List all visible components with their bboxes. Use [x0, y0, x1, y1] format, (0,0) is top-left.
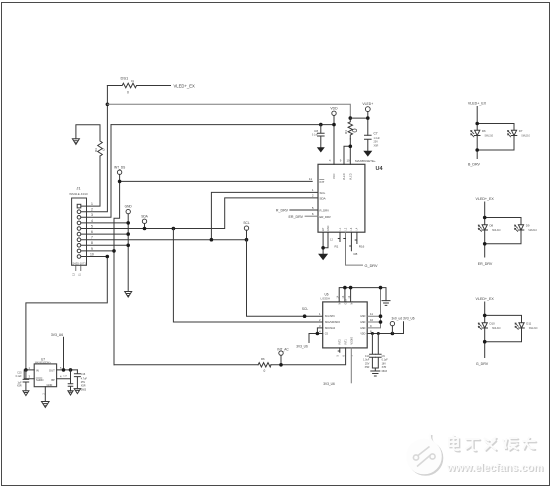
svg-text:GND: GND [47, 383, 53, 387]
svg-text:C15: C15 [17, 373, 22, 375]
wire INT_AC run to U6 INT1 [114, 348, 346, 365]
svg-text:G_DRV: G_DRV [365, 264, 378, 268]
svg-text:0603: 0603 [81, 388, 87, 391]
svg-text:7: 7 [91, 236, 93, 240]
svg-text:R_DRV: R_DRV [320, 209, 330, 213]
svg-text:3: 3 [91, 213, 93, 217]
svg-text:D6: D6 [482, 129, 486, 133]
svg-text:3v0_ud: 3v0_ud [392, 317, 403, 321]
watermark logo elecfans [408, 434, 443, 475]
svg-text:5: 5 [312, 206, 314, 210]
test point INT_AC [279, 351, 283, 355]
svg-text:INT1: INT1 [345, 339, 348, 345]
wire SCL: J1 pin7 to U4 pin1 [81, 192, 318, 239]
wire U6 right GND pins chain [367, 288, 380, 328]
svg-text:OUT: OUT [49, 368, 55, 372]
SECTION2 [16, 286, 415, 408]
svg-text:IN: IN [36, 368, 39, 372]
ground (C16) [74, 389, 80, 394]
svg-text:C8: C8 [314, 129, 318, 133]
svg-text:5: 5 [337, 355, 340, 357]
svg-text:25V: 25V [81, 381, 86, 384]
resistor R5 (0 ohm) [258, 363, 271, 367]
J1 pin numbers [90, 202, 94, 256]
svg-text:VDD: VDD [330, 107, 338, 111]
svg-text:1: 1 [319, 312, 321, 316]
svg-text:16V: 16V [382, 362, 387, 365]
svg-text:1uF: 1uF [18, 382, 23, 384]
svg-text:VCC: VCC [332, 173, 336, 179]
wire SDA: J1 pin5 to U4 pin2 [81, 198, 318, 229]
svg-text:ER_DRV: ER_DRV [478, 262, 493, 266]
svg-text:4: 4 [91, 219, 93, 223]
wire U6 VDDIO to 3V3_U6 [350, 348, 352, 383]
svg-text:C16: C16 [81, 373, 86, 376]
wire: J1 pin6 to GND [81, 233, 128, 235]
IC U4 MAX8831 [318, 164, 365, 232]
svg-text:2: 2 [312, 194, 314, 198]
svg-text:MAX8831ETE+: MAX8831ETE+ [355, 159, 376, 163]
svg-text:GND: GND [360, 321, 366, 324]
ground (left arrow) [72, 139, 79, 145]
LED D11 [515, 323, 524, 330]
svg-text:SCL: SCL [302, 307, 308, 311]
svg-text:R4: R4 [344, 130, 348, 134]
svg-text:SCL/SPC: SCL/SPC [325, 315, 336, 318]
U6 pin numbers / labels [319, 312, 374, 334]
svg-text:10: 10 [90, 252, 94, 256]
wire #1: VLED+ rail to U4 area [107, 104, 350, 118]
wire R4 bottom to U4 VLED pins [344, 139, 350, 164]
wire: J1 pin10 down to U7 input [26, 257, 107, 370]
wire SDA branch to U6 [173, 229, 322, 323]
ground (C15) [23, 391, 29, 396]
svg-text:INT_DS: INT_DS [114, 165, 125, 169]
svg-text:X7R: X7R [382, 366, 387, 369]
connector J1 [69, 186, 88, 277]
svg-text:U6: U6 [325, 293, 329, 297]
LED D7 [508, 130, 517, 137]
svg-text:D7: D7 [519, 129, 523, 133]
wire U7 BP + capacitor C17 [57, 370, 73, 391]
svg-text:R1: R1 [131, 80, 135, 83]
svg-text:SHDN: SHDN [36, 378, 43, 382]
svg-text:3V3_U6: 3V3_U6 [323, 382, 335, 386]
svg-text:VDD: VDD [360, 333, 365, 336]
wire: J1 pin2 riser to DS1 [81, 86, 107, 212]
wire U7 IN / SHDN tie [24, 370, 34, 379]
IC U6 accelerometer [323, 302, 368, 348]
svg-text:R8: R8 [354, 252, 358, 256]
U4 bottom LED driver stubs [338, 232, 340, 241]
ground (GND net) [125, 292, 132, 298]
svg-text:10: 10 [370, 318, 374, 322]
svg-text:3V3_U6: 3V3_U6 [51, 333, 63, 337]
svg-text:SML310: SML310 [529, 328, 538, 330]
svg-text:11: 11 [309, 177, 312, 181]
svg-text:VLED+_EX: VLED+_EX [174, 83, 196, 88]
svg-text:VLED+_EX: VLED+_EX [476, 297, 495, 301]
svg-text:D10: D10 [490, 322, 496, 326]
wire: R3 top to ground elbow [76, 125, 100, 140]
svg-text:VDDIO: VDDIO [350, 337, 353, 345]
svg-text:C17: C17 [63, 376, 68, 378]
svg-text:INT_AC: INT_AC [277, 348, 289, 352]
net label stub R_DRV [290, 209, 318, 211]
wire U4 EP/GND to ground [323, 232, 328, 254]
svg-text:2: 2 [91, 208, 93, 212]
ground (U7) [42, 402, 50, 408]
capacitor C8 [319, 123, 323, 127]
svg-text:X5R: X5R [374, 144, 379, 147]
svg-text:DS1: DS1 [121, 76, 130, 81]
svg-text:3: 3 [319, 324, 321, 328]
node: VLED+ tap on DS1 riser [106, 103, 110, 107]
svg-text:SDO/SA0: SDO/SA0 [325, 327, 336, 330]
svg-text:0: 0 [103, 148, 105, 152]
wire VLED+ to test point and C7 [350, 112, 368, 136]
svg-text:SDA/SDI/SDO: SDA/SDI/SDO [325, 321, 341, 324]
svg-text:10: 10 [347, 159, 351, 163]
svg-text:R3: R3 [94, 148, 98, 152]
svg-text:VLED: VLED [349, 173, 352, 180]
svg-text:U4: U4 [376, 166, 384, 172]
svg-text:SML310: SML310 [521, 136, 530, 138]
svg-text:1.0uF: 1.0uF [374, 137, 381, 140]
node VLED+ junctions [349, 116, 353, 120]
node SCL at U6 [303, 314, 307, 318]
svg-text:C10: C10 [365, 355, 370, 358]
wire: J1 pin8 to GND [81, 244, 128, 246]
watermark text 电子发烧友 (stylized) [449, 436, 536, 452]
svg-text:R6: R6 [261, 357, 265, 361]
svg-text:0: 0 [127, 91, 129, 95]
svg-text:VLED+: VLED+ [362, 102, 373, 106]
test point INT_DS [117, 170, 121, 174]
svg-text:MAX8510EXK+: MAX8510EXK+ [35, 361, 52, 364]
svg-text:1.0uF: 1.0uF [363, 359, 370, 362]
svg-text:9: 9 [91, 247, 93, 251]
svg-text:0603: 0603 [382, 370, 388, 373]
svg-text:WM11E-K310: WM11E-K310 [69, 192, 88, 196]
svg-text:0.1uF: 0.1uF [312, 134, 319, 137]
wire: LED1 frame [477, 107, 514, 159]
ground (C17) [68, 391, 73, 395]
svg-text:R1: R1 [335, 245, 339, 249]
wire: J1 pin4 to GND [81, 222, 128, 224]
svg-text:3V3_U6: 3V3_U6 [403, 317, 415, 321]
test point SDA [142, 219, 146, 223]
resistor R3 (0 ohm) [98, 140, 103, 156]
net label stub ER_DRV [305, 215, 318, 217]
svg-text:D8: D8 [490, 224, 494, 228]
svg-text:X5R: X5R [365, 366, 370, 369]
wire: J1 pin1 to R3 riser [81, 156, 100, 206]
test point VDD [332, 111, 336, 115]
wire #2: VDD rail to U4 area [111, 124, 334, 126]
svg-text:U7: U7 [41, 357, 45, 361]
LED D8 [478, 225, 487, 232]
svg-text:VLED: VLED [343, 173, 346, 180]
wire U6 INT2 stub [338, 348, 340, 352]
node SDA junctions [143, 227, 147, 231]
LED D9 [515, 225, 524, 232]
wire VDD down to U4 VCC pin [333, 116, 335, 165]
svg-text:R_DRV: R_DRV [276, 209, 289, 213]
svg-text:5: 5 [91, 224, 93, 228]
svg-text:11: 11 [370, 312, 373, 316]
svg-text:6: 6 [312, 212, 314, 216]
capacitor C16 [74, 370, 80, 389]
svg-text:6: 6 [91, 230, 93, 234]
IC U7 regulator [34, 364, 56, 387]
test point GND [126, 209, 130, 213]
svg-text:X5R: X5R [17, 386, 22, 388]
node INT_DS junction [118, 180, 122, 184]
svg-text:B_DRV: B_DRV [468, 163, 481, 167]
watermark text www.elecfans.com [446, 462, 544, 475]
test point SCL [244, 226, 248, 230]
svg-text:SCL: SCL [243, 221, 249, 225]
svg-text:GND: GND [125, 205, 133, 209]
svg-text:9: 9 [340, 159, 342, 163]
svg-text:GND: GND [327, 225, 330, 231]
svg-text:VLED+_EX: VLED+_EX [468, 102, 487, 106]
svg-text:52435-1071: 52435-1071 [71, 261, 86, 265]
svg-text:4.7uF: 4.7uF [81, 377, 88, 380]
svg-text:11: 11 [78, 273, 82, 276]
svg-text:SDA: SDA [320, 197, 326, 201]
svg-text:SML310: SML310 [492, 230, 501, 232]
svg-text:G_DRV: G_DRV [476, 362, 489, 366]
test point VLED+ [365, 107, 370, 112]
wire: LED2 frame [485, 202, 521, 257]
svg-text:3V3_U6: 3V3_U6 [296, 345, 308, 349]
svg-text:LIS3DH: LIS3DH [321, 296, 330, 300]
svg-text:EP: EP [322, 227, 325, 231]
wire: J1 pin3 riser to VDD rail [81, 125, 111, 218]
svg-text:www.elecfans.com: www.elecfans.com [446, 462, 543, 474]
wire U6 SA0/CS tie to 3V3_U6 [309, 328, 323, 343]
svg-text:BP: BP [51, 378, 55, 382]
wire U7 GND pin [44, 387, 46, 402]
capacitor C9 [377, 332, 380, 335]
ground (C7, solid) [363, 151, 372, 157]
svg-text:ER_DRV: ER_DRV [288, 215, 303, 219]
svg-text:D11: D11 [526, 322, 531, 326]
wire GND vertical [127, 214, 129, 292]
svg-text:ER_DRV: ER_DRV [320, 215, 331, 219]
svg-text:INT2: INT2 [339, 339, 342, 345]
test point 3v0_ud [390, 321, 394, 325]
U4 left pin labels / numbers [309, 177, 331, 219]
ground (C8, solid) [317, 147, 325, 152]
svg-text:6: 6 [342, 355, 345, 357]
svg-text:C7: C7 [374, 132, 378, 136]
svg-text:C9: C9 [382, 355, 386, 358]
LED D10 [478, 323, 487, 330]
svg-text:2: 2 [319, 318, 321, 322]
wire SCL branch to U6 [247, 240, 323, 317]
capacitor C7 [365, 135, 372, 151]
svg-text:SML310: SML310 [492, 328, 501, 330]
svg-text:4: 4 [60, 375, 62, 379]
svg-text:3: 3 [29, 375, 31, 379]
svg-text:4: 4 [319, 330, 321, 334]
wire U6 VDD pin 8 [367, 322, 403, 334]
svg-text:CS: CS [325, 333, 329, 336]
svg-text:0.1uF: 0.1uF [382, 359, 389, 362]
svg-text:0.1uF: 0.1uF [16, 376, 22, 378]
ground (earth, caps) [371, 371, 380, 376]
resistor DS1 (0 ohm) [107, 83, 170, 88]
node VDD rail end [332, 123, 336, 127]
LED D6 [471, 130, 480, 137]
svg-text:SCL: SCL [320, 191, 326, 195]
capacitor C10 [371, 332, 374, 335]
svg-text:VLED+_EX: VLED+_EX [476, 197, 495, 201]
wire INT_DS: to U4 pin 11 and down to INT_AC run [114, 174, 312, 364]
node GND junctions [126, 221, 130, 225]
svg-text:12: 12 [72, 273, 76, 276]
node pin9 junction [112, 249, 116, 253]
svg-text:25V: 25V [365, 362, 370, 365]
capacitor C15 (input) [23, 370, 29, 391]
svg-text:0: 0 [264, 369, 266, 373]
wire: J1 pin9 joins INT line [81, 250, 114, 252]
svg-text:D9: D9 [526, 224, 530, 228]
node pin10 junction [106, 255, 110, 259]
svg-text:12: 12 [330, 238, 333, 242]
svg-text:SML310: SML310 [485, 136, 494, 138]
svg-text:9: 9 [370, 324, 372, 328]
wire: LED3 frame [485, 302, 522, 358]
svg-text:SDA: SDA [141, 214, 148, 218]
svg-text:INT: INT [320, 180, 325, 184]
svg-text:1: 1 [312, 188, 314, 192]
svg-text:R16: R16 [359, 245, 365, 249]
wire U7 OUT rail [57, 337, 78, 370]
svg-text:1: 1 [29, 366, 31, 370]
svg-text:J1: J1 [76, 186, 81, 191]
svg-text:1: 1 [91, 202, 93, 206]
ground (U4, solid) [318, 254, 328, 260]
wire U6 top GND rail [339, 288, 386, 302]
ground (earth, U6 top) [382, 301, 390, 306]
svg-text:SML310: SML310 [528, 230, 537, 232]
resistor R4 (0 ohm, VLED) [348, 118, 352, 139]
svg-text:4: 4 [329, 159, 331, 163]
svg-text:GND: GND [360, 315, 366, 318]
svg-text:5: 5 [60, 366, 62, 370]
svg-text:X5R: X5R [81, 385, 86, 388]
svg-text:8: 8 [91, 241, 93, 245]
node SCL junctions [210, 238, 214, 242]
svg-text:GND: GND [360, 327, 366, 330]
svg-text:25V: 25V [374, 141, 379, 144]
